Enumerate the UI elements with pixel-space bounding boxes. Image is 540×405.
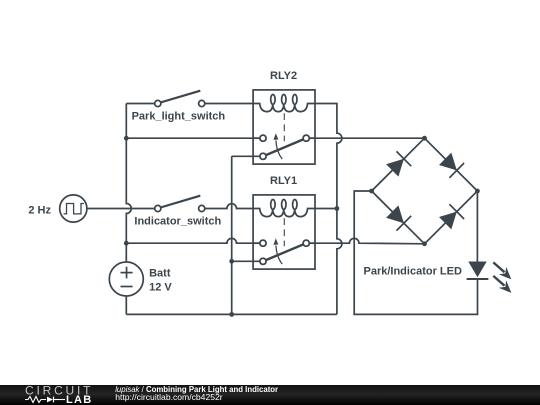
RLY1 dashed link bbox=[283, 218, 285, 246]
RLY1 pin stubs bbox=[253, 242, 260, 244]
bridge edges bbox=[372, 138, 478, 244]
node junction RLY1 coil right bbox=[335, 206, 340, 211]
RLY2 actuation arrow bbox=[276, 141, 282, 160]
node bridge right corner bbox=[475, 189, 480, 194]
switch Park_light_switch bbox=[126, 91, 253, 107]
relay RLY1 bbox=[253, 195, 315, 269]
node bridge bottom corner bbox=[422, 241, 427, 246]
RLY2 contact pins bbox=[260, 135, 266, 141]
wire left vertical from Park_light_switch to battery with hop over 2Hz wire bbox=[126, 104, 131, 263]
diode D1 left-top bbox=[386, 159, 404, 177]
wire vertical branch down to bottom rail bbox=[231, 156, 233, 314]
wire bottom rail from battery bbox=[126, 313, 337, 315]
RLY2 coil bbox=[253, 104, 315, 112]
voltage source V1 2 Hz square wave bbox=[60, 195, 87, 222]
LED D5 Park/Indicator LED bbox=[467, 262, 512, 293]
diode D4 bottom-right bbox=[439, 212, 457, 230]
logo CIRCUIT LAB bbox=[25, 384, 93, 405]
RLY2 pin stubs bbox=[253, 137, 260, 139]
LED emission arrow 1 bbox=[493, 262, 504, 272]
wire battery bottom bbox=[125, 296, 127, 315]
battery V2 bbox=[109, 262, 143, 296]
diode D3 left-bottom bbox=[386, 205, 404, 223]
svg-text:LAB: LAB bbox=[66, 394, 93, 405]
wire Indicator_switch to RLY1 coil with hop over node V2 line bbox=[205, 204, 253, 209]
svg-text:Park_light_switch: Park_light_switch bbox=[132, 110, 226, 122]
wire RLY2 coil right going down with hops bbox=[315, 104, 342, 315]
wire RLY2 bottom contact to vertical branch bbox=[232, 155, 260, 157]
wire to RLY1 bottom contact bbox=[232, 260, 260, 262]
RLY1 coil bbox=[253, 209, 315, 217]
svg-text:2 Hz: 2 Hz bbox=[28, 204, 51, 216]
RLY1 blade bbox=[266, 244, 303, 260]
LED emission arrow 2 bbox=[493, 276, 504, 286]
svg-text:Indicator_switch: Indicator_switch bbox=[134, 216, 221, 228]
node bridge left corner bbox=[369, 189, 374, 194]
node junction bottom rail / branch bbox=[229, 312, 234, 317]
wire node to RLY1 left contact with hop bbox=[126, 238, 260, 243]
wire node to RLY2 left contact bbox=[126, 137, 260, 139]
relay RLY2 bbox=[253, 90, 315, 164]
wire RLY2 right contact to bridge top bbox=[309, 137, 424, 139]
node bridge top corner bbox=[422, 136, 427, 141]
wire bridge left corner to lower rail bbox=[354, 191, 477, 314]
svg-text:Park/Indicator LED: Park/Indicator LED bbox=[364, 265, 462, 277]
node junction left vertical / RLY2 contact wire bbox=[124, 136, 129, 141]
svg-text:http://circuitlab.com/cb4252r: http://circuitlab.com/cb4252r bbox=[115, 392, 223, 402]
RLY2 blade bbox=[266, 139, 303, 155]
RLY2 dashed link bbox=[283, 113, 285, 141]
node junction branch / RLY1 bottom contact bbox=[229, 259, 234, 264]
svg-text:RLY2: RLY2 bbox=[270, 70, 297, 82]
node junction left vertical / RLY1 contact wire bbox=[124, 241, 129, 246]
RLY2 box bbox=[253, 90, 315, 164]
svg-text:12 V: 12 V bbox=[149, 282, 172, 294]
diode bridge D1-D4 bbox=[372, 138, 478, 244]
RLY1 box bbox=[253, 195, 315, 269]
svg-text:RLY1: RLY1 bbox=[270, 175, 297, 187]
switch Indicator_switch bbox=[155, 196, 205, 212]
RLY1 actuation arrow bbox=[276, 246, 282, 265]
wire RLY1 coil right bbox=[315, 208, 337, 210]
svg-text:Batt: Batt bbox=[149, 268, 171, 280]
wire RLY1 right contact to bridge bottom with hop bbox=[309, 238, 424, 243]
wire bridge right corner to LED bbox=[476, 191, 478, 262]
diode D2 top-right bbox=[439, 153, 457, 171]
RLY1 contact pins bbox=[260, 240, 266, 246]
wire V1 to Indicator_switch bbox=[87, 208, 155, 210]
